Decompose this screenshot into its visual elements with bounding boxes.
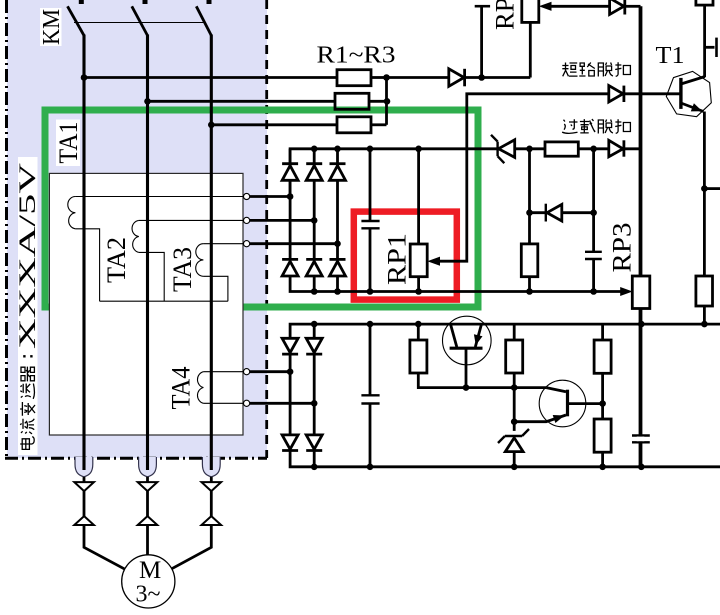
rectifier bottom bus to RP3 arrow (290, 276, 621, 292)
zener diode VS2 (cathode up) (505, 435, 522, 437)
TA3 coil (196, 244, 204, 277)
terminal T-bar column x481 (480, 7, 483, 78)
RP1 wiper arrow (427, 257, 440, 266)
terminal circle row1 (244, 193, 250, 199)
transistor T1 circle (666, 71, 711, 116)
resistor R2 (335, 93, 369, 109)
bridge column 1 lower diode (282, 258, 298, 261)
potentiometer RP1 bottom lead (417, 277, 420, 292)
right drop column x593 with capacitor (592, 149, 595, 252)
svg-text:KM: KM (39, 9, 65, 45)
phase B wire to motor (146, 525, 149, 555)
bridge column 3 upper diode (336, 149, 339, 166)
bushing 1 (75, 457, 93, 477)
transistor V1 circle (443, 316, 492, 365)
phase C wire to motor (172, 525, 212, 569)
red highlight box around RP1 (354, 212, 457, 300)
phase wire A vertical (82, 35, 85, 471)
V1 collector slant (451, 324, 457, 347)
enclosure border bottom (dash-dot) (5, 457, 267, 460)
RP2 wiper arrow (539, 2, 552, 11)
TA2 secondary top wire (139, 219, 244, 221)
svg-text:TA1: TA1 (54, 122, 83, 164)
svg-text:RP2: RP2 (491, 0, 520, 30)
phase A connector female (83, 477, 86, 482)
capacitor C1 plates (361, 220, 379, 222)
resistor R1 (337, 70, 371, 86)
diode VD on row1 (pointing right) (449, 69, 464, 87)
lower bridge column 1 lower diode (pointing down) (282, 435, 298, 449)
column x602 upper resistor (601, 324, 604, 340)
wire TA4 terminal top to lower bridge column 1 (250, 370, 290, 373)
text 短路脱扣 (short-circuit trip) (562, 62, 630, 76)
V2 collector slant (546, 388, 566, 392)
TA secondaries common wire (100, 300, 228, 302)
diode between drops (pointing left) (530, 211, 547, 214)
resistor on right column (696, 276, 713, 306)
RP1 wiper wire (439, 94, 680, 261)
wire resistor bottom to node wire (418, 373, 546, 388)
terminal T-bar (475, 5, 490, 8)
lower bridge column 1 upper diode (pointing down) (282, 338, 298, 352)
V1 base lead down (465, 348, 468, 387)
capacitor C1 bottom lead (369, 228, 372, 291)
TA3 secondary top wire (203, 243, 243, 245)
enclosure border left (dash-dot) (5, 0, 8, 458)
TA1 secondary top wire (75, 196, 243, 198)
top right resistor (clipped) (696, 0, 713, 5)
phase B connector wire (146, 491, 149, 516)
TA1 secondary bottom wire (75, 229, 99, 301)
TA3 secondary bottom wire (203, 276, 228, 301)
contactor KM pole 1 fixed contact (79, 0, 84, 4)
bridge column 1 upper diode (289, 149, 292, 166)
phase A connector male (74, 516, 94, 525)
enclosure border right (dashed) (265, 0, 268, 458)
diode on overload line right (pointing right) (609, 140, 623, 156)
svg-text:R1~R3: R1~R3 (317, 43, 396, 69)
wire terminal 1 to rectifier column 1 (250, 195, 290, 198)
wire R3 right to junction column (371, 123, 387, 126)
V1 emitter slant with arrow (475, 324, 481, 347)
wire terminal 2 to rectifier column 2 (250, 219, 315, 222)
RP2 wiper wire (551, 5, 610, 8)
contactor linkage line (74, 22, 204, 24)
resistor x514 (506, 340, 523, 373)
rectifier top bus / overload trip line (290, 149, 640, 197)
resistor column x418 lower section (417, 324, 420, 340)
terminal circle row2 (244, 217, 250, 223)
wire junction to diode VD (387, 76, 449, 79)
contactor KM pole 2 fixed contact (143, 0, 148, 4)
T1 base bar (679, 78, 682, 109)
phase C connector female (210, 477, 213, 482)
TA2 coil (132, 220, 139, 252)
label TA1 white box (56, 120, 80, 167)
TA4 secondary bottom wire (203, 402, 243, 404)
svg-text:RP1: RP1 (383, 233, 412, 285)
zener column x514 (513, 324, 516, 340)
column x602 lower resistor (594, 419, 611, 452)
wire up to RP2 bottom (529, 22, 532, 77)
phase A wire to motor (84, 525, 125, 569)
potentiometer RP2 body (522, 0, 539, 22)
junction column joining R1-R3 (385, 78, 388, 125)
capacitor stub at right edge (705, 46, 715, 49)
V2 base wire to column x602 (568, 402, 603, 405)
capacitor on x640 (632, 434, 650, 436)
V2 emitter arrow (553, 415, 565, 423)
svg-text:RP3: RP3 (608, 223, 637, 273)
wire R1 right to junction column (371, 76, 387, 79)
phase wire B vertical (146, 35, 149, 471)
contactor KM pole 3 fixed contact (207, 0, 212, 4)
wire terminal 3 to rectifier column 3 (250, 242, 338, 245)
wire diode to RP2 branch (465, 76, 531, 79)
bushing 2 (139, 457, 157, 477)
phase wire C vertical (210, 35, 213, 471)
wire zener node to V2 emitter (514, 415, 566, 422)
current-transmitter enclosure (lavender region) (7, 0, 267, 458)
svg-text:M: M (139, 557, 161, 584)
phase C connector wire (210, 491, 213, 516)
potentiometer RP1 body (410, 244, 427, 277)
zener diode on overload line (cathode left) (496, 142, 498, 157)
lower section bottom bus (290, 452, 720, 467)
TA2 secondary bottom wire (139, 252, 164, 301)
RP3 arrow head (620, 287, 632, 296)
diode on RP2 wiper line (pointing right) (610, 0, 624, 14)
wire row 3 from phase C to R3 (211, 123, 337, 126)
svg-text:TA2: TA2 (102, 237, 131, 283)
wire row 2 from phase B to R2 (148, 100, 336, 103)
bushing 3 (202, 457, 220, 477)
T1 emitter with arrow (681, 103, 704, 112)
terminal circle TA4 top (244, 369, 250, 375)
contactor KM pole 3 blade (196, 6, 211, 35)
svg-text:3~: 3~ (136, 582, 161, 608)
svg-text:TA4: TA4 (167, 367, 196, 410)
potentiometer RP1 top lead (417, 149, 420, 244)
bridge column 2 upper diode (313, 149, 316, 166)
wire row 1 from phase A to R1 (84, 76, 337, 79)
svg-text:TA3: TA3 (168, 247, 197, 292)
transistor V2 circle (539, 380, 586, 427)
text 过载脱扣 (overload trip) (562, 119, 630, 133)
left drop column x529 (528, 149, 531, 244)
green highlight box (45, 110, 478, 307)
vertical label 电流变送器：XXXA/5V (15, 162, 40, 449)
label strip 电流变送器：XXXA/5V white background (18, 157, 38, 455)
svg-text:XXXA/5V: XXXA/5V (15, 162, 40, 349)
phase B connector female (146, 477, 149, 482)
svg-text:T1: T1 (656, 43, 685, 69)
stub to right edge (704, 187, 720, 190)
TA4 coil (197, 372, 203, 404)
column x602 middle wire (601, 373, 604, 419)
wire diode to main vertical (625, 5, 641, 8)
lower section top bus (290, 324, 720, 338)
potentiometer RP3 body (632, 276, 650, 309)
V1 base bar (450, 347, 483, 350)
TA1 coil (68, 197, 76, 229)
contactor KM pole 1 blade (68, 6, 85, 35)
contactor KM pole 2 blade (132, 6, 148, 35)
capacitor C1 top lead (369, 149, 372, 221)
wire TA4 terminal bottom to lower bridge column 2 (250, 402, 315, 405)
terminal circle TA4 bottom (244, 400, 250, 406)
right column x704 upper (703, 5, 706, 77)
motor M circle (122, 555, 175, 608)
resistor on overload line (545, 142, 578, 156)
diode on short-circuit trip line (pointing right) (609, 86, 623, 102)
right column x704 lower (703, 112, 706, 277)
bridge column 3 lower diode (330, 258, 346, 261)
lower bridge column 2 upper diode (pointing down) (313, 324, 316, 338)
wire R2 right to junction column (369, 100, 388, 103)
TA assembly white box (49, 173, 243, 435)
resistor in left drop (521, 244, 538, 277)
terminal circle row3 (244, 241, 250, 247)
phase C connector male (202, 516, 222, 525)
T1 collector (681, 77, 705, 85)
label KM white box (40, 8, 62, 46)
filter capacitor column x370 (369, 324, 372, 395)
resistor R3 (337, 117, 371, 133)
resistor R2 white body (under green) (335, 93, 369, 109)
phase B connector male (138, 516, 158, 525)
main thick vertical line x640 (639, 6, 643, 276)
V2 base bar (566, 390, 569, 417)
lower bridge column 2 lower diode (pointing down) (306, 435, 322, 449)
phase A connector wire (83, 491, 86, 516)
TA4 secondary top wire (203, 371, 243, 373)
bridge column 2 lower diode (306, 258, 322, 261)
